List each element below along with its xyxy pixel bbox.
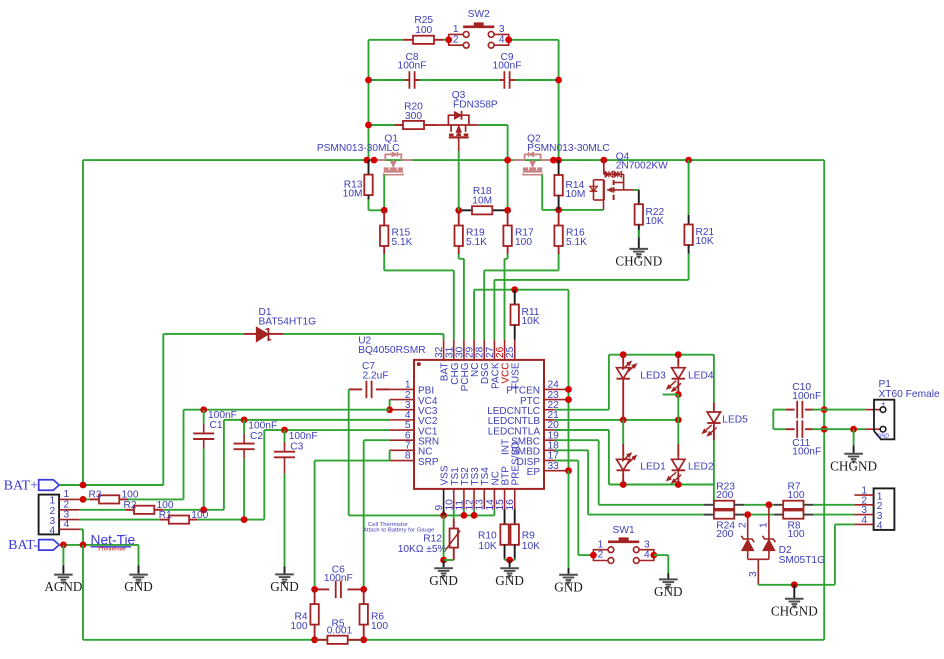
svg-text:4: 4 (64, 519, 70, 530)
svg-text:R3: R3 (89, 490, 102, 501)
svg-text:1: 1 (64, 489, 70, 500)
svg-text:PSMN013-30MLC: PSMN013-30MLC (527, 143, 610, 154)
svg-text:2: 2 (738, 522, 749, 528)
svg-text:100: 100 (122, 490, 139, 501)
svg-text:5.1K: 5.1K (392, 237, 413, 248)
svg-text:4: 4 (50, 526, 56, 537)
svg-text:PRES/SD: PRES/SD (511, 442, 522, 486)
svg-text:2.2uF: 2.2uF (363, 371, 389, 382)
svg-text:200: 200 (716, 529, 733, 540)
svg-text:10K: 10K (522, 316, 540, 327)
svg-text:100nF: 100nF (792, 446, 821, 457)
svg-text:10K: 10K (646, 216, 664, 227)
svg-text:CHGND: CHGND (615, 254, 662, 269)
svg-text:4: 4 (644, 550, 650, 561)
svg-text:FDN358P: FDN358P (453, 100, 498, 111)
svg-text:Attach to Battery for Gauge: Attach to Battery for Gauge (363, 528, 435, 534)
svg-text:GND: GND (877, 434, 889, 440)
svg-text:10K: 10K (522, 541, 540, 552)
svg-text:100: 100 (788, 529, 805, 540)
svg-text:CHGND: CHGND (771, 603, 818, 618)
svg-text:EP: EP (527, 467, 541, 478)
svg-text:100nF: 100nF (289, 431, 318, 442)
svg-text:4: 4 (499, 34, 505, 45)
svg-text:25: 25 (505, 346, 516, 358)
svg-text:200: 200 (716, 490, 733, 501)
svg-text:GND: GND (429, 573, 458, 588)
svg-text:R12: R12 (423, 533, 442, 544)
svg-text:Уточнение: Уточнение (98, 547, 126, 553)
svg-text:BAT+: BAT+ (4, 478, 38, 493)
svg-text:100: 100 (415, 25, 432, 36)
svg-text:AGND: AGND (44, 579, 82, 594)
svg-text:100nF: 100nF (248, 420, 277, 431)
svg-text:LED5: LED5 (722, 415, 748, 426)
svg-text:+: + (881, 399, 886, 408)
svg-text:4: 4 (861, 515, 867, 526)
svg-text:BQ4050RSMR: BQ4050RSMR (358, 345, 425, 356)
svg-text:GND: GND (554, 579, 583, 594)
svg-text:BAT-: BAT- (8, 538, 38, 553)
svg-text:C2: C2 (250, 431, 263, 442)
svg-text:5.1K: 5.1K (466, 237, 487, 248)
svg-text:10K: 10K (479, 541, 497, 552)
svg-text:R2: R2 (124, 500, 137, 511)
svg-text:LED1: LED1 (640, 461, 666, 472)
svg-text:2: 2 (598, 550, 604, 561)
svg-text:100: 100 (291, 621, 308, 632)
svg-text:33: 33 (548, 461, 560, 472)
svg-text:10KΩ ±5%: 10KΩ ±5% (398, 544, 447, 555)
svg-text:10M: 10M (472, 196, 492, 207)
svg-text:100nF: 100nF (792, 391, 821, 402)
svg-text:100: 100 (788, 490, 805, 501)
svg-text:3: 3 (748, 571, 759, 577)
svg-text:10M: 10M (566, 189, 586, 200)
svg-text:100: 100 (371, 621, 388, 632)
svg-text:1: 1 (50, 496, 56, 507)
svg-text:10K: 10K (696, 236, 714, 247)
svg-text:16: 16 (505, 499, 516, 511)
svg-text:GND: GND (270, 579, 299, 594)
svg-text:C3: C3 (290, 441, 303, 452)
svg-text:SRP: SRP (418, 457, 439, 468)
svg-text:100: 100 (515, 237, 532, 248)
svg-text:CHGND: CHGND (830, 458, 877, 473)
svg-text:SW1: SW1 (613, 525, 635, 536)
svg-text:Net-Tie: Net-Tie (91, 533, 136, 548)
svg-text:GND: GND (654, 584, 683, 599)
svg-text:BAT54HT1G: BAT54HT1G (259, 316, 317, 327)
svg-text:PSMN013-30MLC: PSMN013-30MLC (317, 143, 400, 154)
svg-text:100nF: 100nF (493, 61, 522, 72)
svg-text:R1: R1 (159, 510, 172, 521)
svg-text:LED4: LED4 (688, 371, 714, 382)
svg-text:XT60 Female: XT60 Female (879, 389, 940, 400)
svg-text:LED2: LED2 (688, 461, 714, 472)
svg-text:C1: C1 (210, 420, 223, 431)
svg-text:LED3: LED3 (640, 371, 666, 382)
svg-text:5.1K: 5.1K (566, 237, 587, 248)
svg-text:8: 8 (405, 451, 411, 462)
svg-text:4: 4 (877, 521, 883, 532)
svg-text:GND: GND (495, 573, 524, 588)
svg-text:2: 2 (453, 34, 459, 45)
svg-text:10M: 10M (343, 189, 363, 200)
svg-text:2N7002KW: 2N7002KW (616, 161, 668, 172)
svg-text:GND: GND (124, 579, 153, 594)
svg-text:0.001: 0.001 (327, 625, 353, 636)
svg-text:100nF: 100nF (324, 573, 353, 584)
svg-text:1: 1 (759, 522, 770, 528)
svg-text:100: 100 (191, 510, 208, 521)
svg-text:SW2: SW2 (468, 9, 490, 20)
svg-text:INT: INT (501, 439, 512, 455)
svg-text:SM05T1G: SM05T1G (779, 555, 826, 566)
svg-text:100nF: 100nF (398, 61, 427, 72)
svg-text:100nF: 100nF (208, 410, 237, 421)
svg-text:300: 300 (405, 111, 422, 122)
